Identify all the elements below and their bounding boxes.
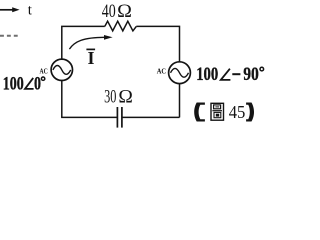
current arrow bbox=[69, 35, 112, 49]
svg-text:1000: 1000 bbox=[3, 74, 41, 94]
degree symbol bbox=[41, 77, 44, 80]
wire top bbox=[62, 26, 105, 59]
degree symbol bbox=[260, 67, 264, 71]
svg-text:AC: AC bbox=[157, 66, 166, 75]
wire bottom right bbox=[122, 116, 180, 118]
figure caption CJK tu (picture) glyph bbox=[211, 103, 224, 120]
svg-text:t: t bbox=[28, 2, 33, 18]
dashed line bbox=[0, 35, 18, 37]
capacitor C 30ohm plates bbox=[116, 107, 118, 128]
minus sign bbox=[232, 73, 240, 75]
svg-text:30Ω: 30Ω bbox=[104, 88, 133, 108]
time-axis arrow bbox=[0, 7, 20, 12]
wire right lower bbox=[179, 84, 181, 118]
svg-text:10090: 10090 bbox=[196, 65, 259, 85]
current label I bar bbox=[86, 48, 95, 68]
AC source V1 circle bbox=[51, 59, 72, 80]
svg-text:I: I bbox=[88, 48, 95, 68]
V1 value 100 angle 0 deg bbox=[3, 74, 45, 94]
wire left lower bbox=[61, 81, 63, 118]
svg-text:45: 45 bbox=[229, 102, 246, 122]
V2 value 100 angle -90 deg bbox=[196, 65, 263, 85]
wire top right bbox=[136, 26, 179, 62]
V2 sine bbox=[171, 68, 189, 77]
figure caption bracket right bbox=[246, 103, 254, 122]
figure caption bracket left bbox=[194, 103, 205, 122]
angle symbol bbox=[25, 78, 34, 89]
resistor R 40ohm bbox=[105, 21, 137, 31]
angle symbol bbox=[221, 69, 231, 80]
svg-text:40Ω: 40Ω bbox=[102, 2, 132, 22]
wire bottom left bbox=[61, 116, 117, 118]
AC source V2 circle bbox=[169, 62, 191, 84]
V1 sine bbox=[53, 66, 71, 75]
